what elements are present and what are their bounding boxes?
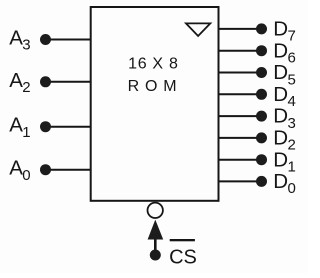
label D4 — [273, 83, 296, 110]
svg-text:CS: CS — [169, 247, 197, 269]
wire D3 — [218, 115, 261, 117]
label D2 — [273, 127, 296, 154]
terminal node D6 — [256, 45, 267, 56]
CS input arrow (shaft) — [154, 236, 157, 251]
svg-text:16 X 8: 16 X 8 — [128, 55, 178, 72]
svg-text:D: D — [273, 148, 288, 171]
label D5 — [273, 61, 296, 88]
svg-text:7: 7 — [288, 28, 296, 45]
label A1 — [9, 114, 30, 141]
wire D5 — [218, 72, 261, 74]
svg-text:D: D — [273, 127, 288, 150]
wire D4 — [218, 93, 261, 95]
svg-text:ROM: ROM — [128, 78, 183, 95]
terminal node A1 — [40, 121, 51, 132]
svg-text:A: A — [9, 157, 23, 180]
terminal node D4 — [256, 89, 267, 100]
svg-text:5: 5 — [288, 71, 296, 88]
svg-text:3: 3 — [22, 37, 30, 54]
three-state output indicator (inverted triangle) — [186, 23, 210, 36]
svg-text:A: A — [9, 69, 23, 92]
wire A3 — [46, 39, 91, 41]
svg-text:3: 3 — [288, 115, 296, 132]
ROM U1 body — [91, 7, 219, 201]
terminal node D2 — [256, 132, 267, 143]
terminal node D5 — [256, 67, 267, 78]
label D7 — [273, 18, 296, 45]
wire A2 — [46, 81, 91, 83]
svg-text:1: 1 — [22, 124, 30, 141]
label A3 — [9, 27, 30, 54]
svg-text:D: D — [273, 83, 288, 106]
svg-text:D: D — [273, 170, 288, 193]
label D6 — [273, 39, 296, 66]
terminal node D1 — [256, 154, 267, 165]
wire D6 — [218, 50, 261, 52]
svg-text:D: D — [273, 39, 288, 62]
wire D1 — [218, 159, 261, 161]
svg-text:1: 1 — [288, 159, 296, 176]
terminal node D0 — [256, 176, 267, 187]
terminal node D7 — [256, 23, 267, 34]
wire D7 — [218, 28, 261, 30]
label CS (active-low, with overline) — [169, 239, 197, 269]
terminal node A3 — [40, 34, 51, 45]
terminal node A0 — [40, 164, 51, 175]
terminal node CS — [150, 250, 161, 261]
wire A0 — [46, 169, 91, 171]
svg-text:6: 6 — [288, 50, 296, 67]
svg-text:2: 2 — [288, 137, 296, 154]
svg-text:0: 0 — [288, 180, 296, 197]
svg-text:2: 2 — [22, 79, 30, 96]
label D1 — [273, 148, 296, 175]
CS input arrowhead — [148, 220, 164, 240]
svg-text:D: D — [273, 61, 288, 84]
wire D0 — [218, 180, 261, 182]
wire A1 — [46, 126, 91, 128]
svg-text:D: D — [273, 18, 288, 41]
svg-text:0: 0 — [22, 167, 30, 184]
label A0 — [9, 157, 30, 184]
svg-text:A: A — [9, 27, 23, 50]
svg-text:A: A — [9, 114, 23, 137]
active-low bubble on CS pin — [148, 203, 163, 218]
label D3 — [273, 105, 296, 132]
svg-text:D: D — [273, 105, 288, 128]
U1 value label "16 X 8 ROM" — [128, 55, 183, 94]
svg-text:4: 4 — [288, 93, 296, 110]
label A2 — [9, 69, 30, 96]
label D0 — [273, 170, 296, 197]
terminal node D3 — [256, 111, 267, 122]
wire D2 — [218, 137, 261, 139]
terminal node A2 — [40, 76, 51, 87]
